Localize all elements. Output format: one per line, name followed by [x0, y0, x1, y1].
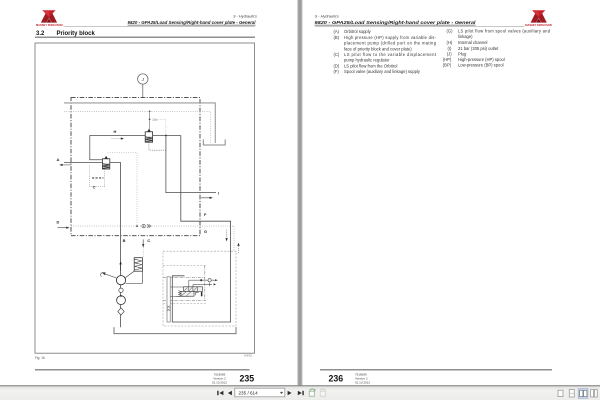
- svg-text:G: G: [204, 229, 207, 234]
- layout: two-up continuous: [591, 390, 598, 397]
- svg-text:(B): (B): [334, 35, 340, 40]
- svg-text:B: B: [123, 238, 126, 243]
- MF logo right page: [531, 10, 547, 22]
- arrow down C port: [142, 239, 144, 247]
- arrow I (flow annotation): [201, 197, 213, 199]
- LS pilot dotted from valve BP to D line: [108, 152, 138, 226]
- svg-text:235: 235: [240, 373, 255, 383]
- pilot feedback dashed (valve HP spring side): [149, 136, 166, 150]
- left page footer: [35, 370, 254, 385]
- svg-text:Fig. 16: Fig. 16: [35, 356, 45, 360]
- svg-text:placement pump (drilled port o: placement pump (drilled port on the mati…: [344, 41, 437, 46]
- svg-text:3.2: 3.2: [36, 31, 45, 37]
- svg-text:LS pilot flow from spool valve: LS pilot flow from spool valves (auxilia…: [458, 29, 551, 34]
- right page footer: [320, 370, 552, 385]
- lower spool row: [178, 291, 194, 297]
- svg-text:(BP): (BP): [443, 63, 452, 68]
- svg-text:High-pressure (HP) spool: High-pressure (HP) spool: [458, 57, 505, 62]
- svg-text:[2a]: [2a]: [153, 118, 158, 122]
- svg-text:(I): (I): [448, 46, 453, 51]
- svg-text:01.10.2012: 01.10.2012: [212, 381, 227, 385]
- arrow A (flow annotation, left): [59, 164, 71, 166]
- coupler chevrons: [147, 224, 151, 227]
- coupler circle on D line: [142, 224, 145, 227]
- wire F to cover plate box: [172, 136, 230, 323]
- port J circle: [138, 74, 148, 84]
- node at orifice label: [149, 119, 151, 121]
- svg-text:(HP): (HP): [443, 57, 452, 62]
- svg-text:(C): (C): [334, 52, 340, 57]
- tank return bracket: [114, 327, 236, 334]
- tank symbol: [203, 139, 225, 145]
- regulator links to pump: [125, 271, 134, 277]
- HP supply line B (grey) to tank: [64, 103, 215, 143]
- next view icon (disabled): [320, 389, 325, 396]
- layout: continuous: [569, 390, 574, 397]
- svg-text:9 - Hydraulics: 9 - Hydraulics: [233, 13, 257, 18]
- svg-text:(D): (D): [334, 63, 340, 68]
- dotted C pilot to regulator: [142, 247, 144, 257]
- nav: last page: [298, 391, 304, 396]
- wire valve HP output right: [153, 135, 181, 137]
- filter diamond: [118, 308, 124, 315]
- svg-text:pump hydraulic regulator: pump hydraulic regulator: [344, 58, 390, 63]
- figure frame: [35, 43, 255, 353]
- svg-text:(A): (A): [334, 29, 340, 34]
- inner dashed channel line: [163, 264, 206, 266]
- layout: two-up (selected): [578, 389, 588, 399]
- valve BP (low-pressure spool): [102, 156, 109, 169]
- svg-text:236: 236: [329, 373, 344, 383]
- svg-text:21 bar (305 psi) outlet: 21 bar (305 psi) outlet: [458, 46, 499, 51]
- arrow up (return flow): [237, 243, 239, 254]
- svg-text:I: I: [218, 190, 219, 195]
- small coupling circle: [119, 288, 123, 292]
- MF logo left page: [41, 10, 57, 22]
- LS dotted line to tank: [64, 111, 210, 143]
- svg-text:Low-pressure (BP) spool: Low-pressure (BP) spool: [458, 63, 504, 68]
- layout: single page: [558, 390, 563, 396]
- arrow D (flow annotation, right): [58, 227, 70, 229]
- svg-text:9820 - GPA25/Load Sensing/Righ: 9820 - GPA25/Load Sensing/Right-hand cov…: [128, 20, 257, 25]
- svg-text:(G): (G): [447, 29, 454, 34]
- svg-text:MASSEY FERGUSON: MASSEY FERGUSON: [36, 23, 63, 27]
- internal channel bar H: [167, 277, 170, 322]
- channel connector lines: [170, 295, 181, 297]
- page separator bar: [297, 0, 302, 386]
- svg-text:High pressure (HP) supply from: High pressure (HP) supply from variable …: [344, 35, 437, 40]
- pilot dashed box C under valve BP: [89, 165, 104, 186]
- nav: next page: [288, 391, 292, 396]
- svg-text:D: D: [57, 220, 60, 225]
- node on LS line: [149, 110, 151, 112]
- orifice thick dashes: [92, 177, 104, 179]
- svg-text:LS pilot flow from the Orbitro: LS pilot flow from the Orbitrol: [344, 63, 397, 68]
- pump regulator (spring box): [134, 258, 142, 272]
- right page legend text: [334, 29, 551, 75]
- svg-text:linkage): linkage): [458, 34, 473, 39]
- svg-text:9820 - GPA25/Load Sensing/Righ: 9820 - GPA25/Load Sensing/Right-hand cov…: [315, 20, 477, 25]
- valve HP (high-pressure spool): [145, 129, 152, 142]
- cover plate dashed enclosure: [163, 251, 236, 326]
- svg-text:LS pilot flow to the variable: LS pilot flow to the variable displaceme…: [344, 52, 437, 57]
- pilot stem to valve HP: [149, 111, 151, 129]
- svg-text:235 / 614: 235 / 614: [239, 390, 259, 395]
- base line: [177, 295, 190, 297]
- svg-text:01.10.2012: 01.10.2012: [355, 381, 370, 385]
- inner dashed line 2: [163, 303, 206, 305]
- previous view icon: [309, 389, 315, 396]
- svg-text:Spool valve (auxiliary and lin: Spool valve (auxiliary and linkage) supp…: [344, 69, 421, 74]
- svg-text:MASSEY FERGUSON: MASSEY FERGUSON: [525, 23, 552, 27]
- arrow H (flow annotation): [112, 137, 125, 139]
- svg-text:Internal channel: Internal channel: [458, 40, 488, 45]
- spool valve cells: [184, 287, 203, 292]
- plug bar: [201, 292, 203, 296]
- node on output: [165, 135, 167, 137]
- priority block boundary (dash-dot): [71, 98, 200, 236]
- LS line D dotted across block: [71, 226, 234, 251]
- wire A out of block: [64, 162, 102, 164]
- svg-text:Priority block: Priority block: [57, 31, 96, 37]
- wire from J to block: [142, 84, 144, 97]
- svg-text:409451: 409451: [244, 354, 253, 357]
- variable displacement pump: [116, 276, 125, 285]
- svg-text:(H): (H): [447, 40, 453, 45]
- page number box: [235, 388, 285, 397]
- svg-text:Plug: Plug: [458, 51, 467, 56]
- svg-text:Orbitrol supply: Orbitrol supply: [344, 29, 372, 34]
- svg-text:(F): (F): [334, 69, 340, 74]
- svg-text:A: A: [57, 157, 60, 162]
- svg-text:C: C: [93, 184, 96, 189]
- svg-text:C: C: [147, 238, 150, 243]
- arrow down (G flow): [225, 230, 227, 242]
- nav: previous page: [228, 391, 232, 396]
- wire valve HP to left and down to valve BP: [90, 136, 145, 160]
- wire valve BP to B line: [110, 163, 121, 328]
- motor/gauge circle: [117, 295, 126, 305]
- hook fitting: [195, 293, 198, 296]
- svg-text:(J): (J): [447, 51, 452, 56]
- pilot line with check balls: [189, 279, 218, 282]
- arrow up on B line: [119, 261, 121, 271]
- nav: first page: [217, 391, 223, 396]
- svg-text:9 - Hydraulics: 9 - Hydraulics: [315, 13, 339, 18]
- swash lever arrow: [101, 272, 117, 278]
- axis dash-dot lines: [163, 265, 206, 300]
- node on D line: [136, 225, 138, 227]
- wire I output: [166, 136, 216, 193]
- pilot dotted to node: [158, 119, 166, 135]
- second pilot line: [189, 280, 216, 287]
- svg-text:face of priority block and cov: face of priority block and cover plate): [344, 46, 412, 51]
- svg-text:H: H: [114, 129, 117, 134]
